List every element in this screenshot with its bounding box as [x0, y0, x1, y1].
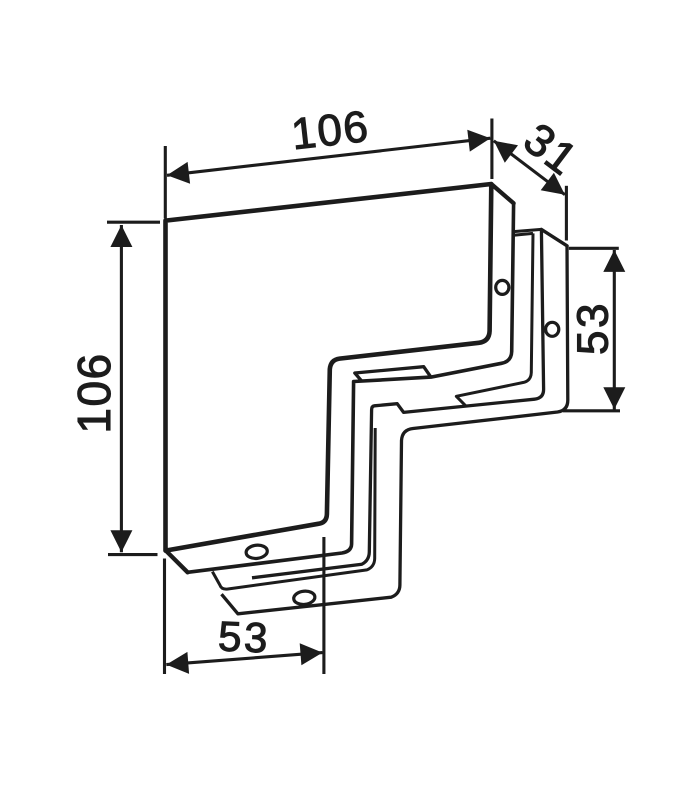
- bottom-left depth bevel edge: [166, 551, 187, 572]
- dim 53 bottom extension line left: [163, 559, 166, 675]
- top-right depth bevel edge: [491, 184, 513, 203]
- svg-text:106: 106: [68, 352, 120, 433]
- svg-text:106: 106: [289, 102, 372, 159]
- back plate front face contour: [252, 229, 544, 577]
- gasket strip in notch (upper): [355, 367, 431, 381]
- dim 31 arrow lower: [541, 173, 565, 195]
- gasket bottom edge strip: [212, 428, 375, 589]
- back plate rear face contour: [222, 246, 568, 614]
- front plate back face contour: [188, 203, 514, 572]
- dim 106 left extension tick bottom: [108, 553, 158, 556]
- dim 53 right arrow up: [603, 250, 625, 272]
- screw hole on back plate right side: [546, 322, 559, 336]
- screw hole on front plate right side: [496, 280, 509, 294]
- dim 106 top arrow right: [467, 130, 490, 152]
- dim 106 left arrow up: [110, 225, 132, 247]
- screw hole on front plate bottom: [245, 544, 267, 559]
- dim 31 arrow upper: [494, 141, 518, 163]
- dim 31 extension line right: [565, 186, 568, 241]
- dim 53 bottom extension line right: [322, 537, 325, 674]
- dim 53 right extension tick top: [569, 247, 619, 250]
- svg-text:53: 53: [217, 612, 271, 661]
- svg-text:53: 53: [569, 301, 618, 355]
- dim 106 top extension line left: [164, 146, 167, 219]
- dim 106 top extension line right: [490, 119, 493, 180]
- dim 106 top arrow left: [167, 162, 190, 184]
- dim 53 bottom dimension line: [166, 653, 322, 665]
- dim 106 left extension tick top: [107, 221, 160, 224]
- front plate front face outline: [166, 184, 492, 551]
- dim 53 right extension tick bottom: [563, 409, 620, 412]
- dim 53 right dimension line: [613, 250, 616, 410]
- gasket right edge contour: [456, 233, 533, 406]
- screw hole on back plate bottom: [293, 590, 315, 605]
- dim 53 bottom arrow right: [300, 643, 323, 665]
- dim 106 left arrow down: [110, 530, 132, 552]
- back plate top-right depth bevel: [541, 229, 567, 245]
- dim 53 bottom arrow left: [166, 652, 189, 674]
- dim 106 left dimension line: [120, 225, 123, 552]
- dim 31 dimension line: [494, 141, 565, 195]
- dim 53 right arrow down: [603, 387, 625, 409]
- glass gap lip edges top-right: [514, 229, 542, 235]
- dim 106 top dimension line: [167, 138, 490, 175]
- svg-text:31: 31: [515, 113, 588, 186]
